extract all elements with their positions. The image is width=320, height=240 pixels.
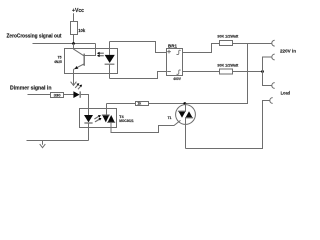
opto box U T5 — [65, 49, 118, 74]
wire riser to triac junction — [185, 44, 248, 104]
wire ZeroCrossing out — [33, 43, 96, 45]
resistor 30K bottom — [220, 69, 233, 74]
svg-text:220V in: 220V in — [280, 49, 296, 54]
connector Load top — [272, 83, 275, 89]
triac T1 bottom bar — [185, 117, 193, 119]
wire LED to MOC input — [81, 95, 89, 116]
node junction dot triac top — [183, 102, 186, 105]
opto box U T4 — [80, 109, 117, 128]
diode LED in T4 triangle — [84, 115, 93, 122]
wire LED T5 cathode down — [109, 65, 111, 79]
wire T4 triac to 1k — [107, 103, 136, 105]
wire cathode to bridge BR1 — [110, 72, 167, 79]
transistor Q T5 collector — [74, 44, 84, 56]
svg-text:400V: 400V — [173, 76, 181, 81]
light arrow 2 indicator — [78, 86, 81, 90]
wire to Load top connector — [263, 72, 272, 86]
svg-text:30K 1/2Watt: 30K 1/2Watt — [217, 33, 239, 38]
transistor T5 base bar — [83, 54, 85, 66]
triac in T4 top bar — [102, 114, 110, 116]
light arrow 2 in T4 — [95, 119, 100, 122]
triac T1 right triangle — [185, 111, 192, 118]
wire 30K bottom to node — [233, 71, 263, 73]
node junction dot 220V bottom — [261, 70, 264, 73]
connector 220V in top — [272, 40, 275, 46]
light arrow 1 indicator — [75, 84, 78, 88]
wire bridge bottom out — [183, 71, 220, 73]
triac T1 left triangle — [178, 111, 185, 118]
pin label plus — [167, 50, 171, 54]
transistor T5 emitter — [74, 64, 84, 69]
svg-text:330: 330 — [54, 94, 61, 98]
wire anode to bridge BR1 — [110, 42, 167, 53]
diode LED T5 triangle — [105, 55, 115, 63]
wire dimmer return — [27, 140, 89, 142]
svg-text:Dimmer signal in: Dimmer signal in — [10, 86, 52, 92]
transistor T5 emitter arrow — [75, 66, 79, 69]
wire Load bottom to rail — [186, 101, 270, 149]
svg-text:T1: T1 — [168, 116, 172, 120]
connector Load bottom — [270, 98, 273, 104]
triac in T4 left triangle — [102, 115, 109, 122]
diode LED in T5 anode line — [109, 42, 111, 55]
triac in T4 right triangle — [108, 115, 115, 122]
svg-text:Load: Load — [281, 90, 291, 95]
triac T1 top bar — [178, 110, 186, 112]
wire Vcc to R10k — [73, 13, 75, 21]
bridge rectifier BR1 box — [167, 49, 183, 76]
svg-text:30K 1/2Watt: 30K 1/2Watt — [217, 63, 239, 68]
wire to 220V bottom connector — [263, 57, 272, 72]
resistor 10k — [71, 22, 78, 35]
wire emitter down — [73, 69, 75, 85]
diode LED T4 cathode bar — [84, 122, 92, 124]
wire base tie stub — [85, 44, 96, 56]
svg-text:10k: 10k — [78, 28, 86, 33]
pin label ac top — [177, 50, 181, 54]
diode LED indicator triangle — [73, 91, 79, 98]
svg-text:ZeroCrossing signal out: ZeroCrossing signal out — [7, 34, 62, 40]
wire dimmer in — [28, 94, 51, 96]
wire T1 main terminal down — [185, 118, 187, 149]
wire R10k to node — [73, 35, 75, 44]
resistor 30K top — [220, 41, 233, 46]
ground arrow dimmer return — [42, 141, 44, 145]
diode LED T5 cathode bar — [105, 63, 115, 65]
diode LED indicator cathode bar — [79, 91, 81, 97]
light arrow 1 in T4 — [94, 116, 99, 119]
wire junction to T1 — [185, 104, 187, 112]
wire R330 to LED — [64, 94, 74, 96]
triac T1 circle — [176, 105, 196, 125]
light arrow 2 in T5 — [99, 55, 104, 57]
wire T4 triac top terminal — [106, 104, 108, 115]
wire LED T4 cathode down — [88, 123, 90, 141]
wire 1k to triac junction — [149, 103, 248, 105]
svg-text:BR1: BR1 — [168, 43, 177, 48]
pin label ac bottom — [177, 70, 181, 74]
ground arrow T5 emitter — [71, 82, 77, 86]
triac in T4 bottom bar — [107, 121, 115, 123]
resistor 330 — [51, 93, 64, 98]
wire 30K top to connector — [233, 43, 272, 45]
wire T4 gate path — [111, 120, 181, 132]
connector 220V in bottom — [272, 54, 275, 60]
wire bridge top out — [183, 44, 220, 53]
svg-text:4N25: 4N25 — [54, 59, 62, 64]
svg-text:MOC3021: MOC3021 — [119, 119, 134, 123]
pin label minus — [167, 71, 171, 73]
light arrow 1 in T5 — [99, 52, 104, 54]
resistor 1k — [136, 102, 149, 106]
node junction dot collector — [72, 42, 75, 45]
